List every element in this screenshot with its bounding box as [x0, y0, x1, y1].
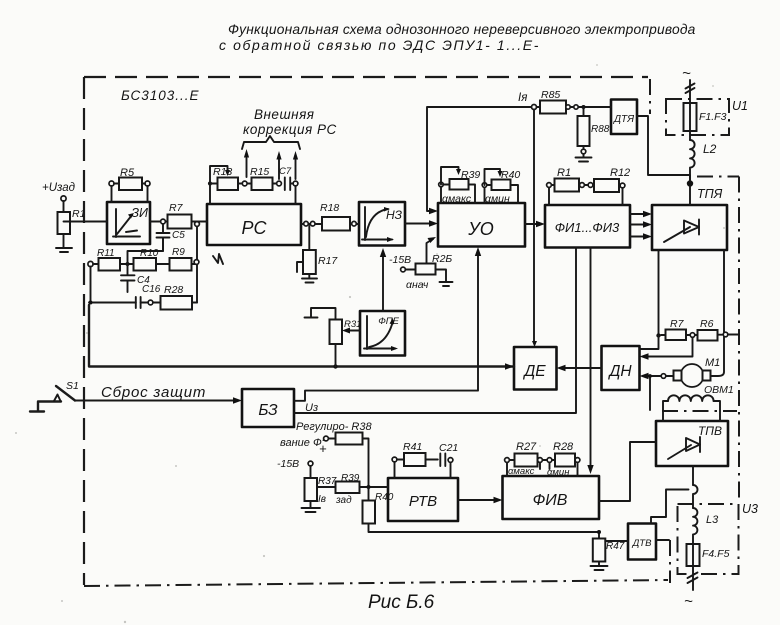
- svg-text:R12: R12: [610, 167, 630, 179]
- svg-text:+Uзад: +Uзад: [42, 182, 75, 194]
- svg-text:F4.F5: F4.F5: [702, 548, 730, 560]
- svg-text:НЗ: НЗ: [386, 208, 403, 222]
- svg-text:R27: R27: [516, 441, 537, 453]
- svg-text:R1: R1: [557, 167, 571, 179]
- svg-text:Рис Б.6: Рис Б.6: [368, 592, 435, 613]
- svg-text:L3: L3: [706, 514, 719, 526]
- svg-text:R7: R7: [169, 202, 184, 214]
- svg-text:R11: R11: [97, 248, 115, 259]
- svg-text:зад: зад: [335, 495, 352, 506]
- svg-text:C16: C16: [142, 284, 161, 295]
- svg-text:R18: R18: [320, 202, 339, 214]
- svg-text:R88: R88: [591, 124, 610, 135]
- svg-text:R2Б: R2Б: [432, 253, 452, 265]
- svg-text:R1: R1: [72, 208, 85, 220]
- svg-text:ТПВ: ТПВ: [698, 424, 722, 438]
- svg-text:αмакс: αмакс: [442, 193, 472, 205]
- svg-text:РТВ: РТВ: [409, 493, 437, 510]
- svg-text:ФПЕ: ФПЕ: [378, 316, 399, 327]
- svg-text:ДЕ: ДЕ: [522, 363, 546, 380]
- svg-text:ТПЯ: ТПЯ: [697, 187, 723, 201]
- svg-text:R6: R6: [700, 318, 714, 330]
- svg-text:αнач: αнач: [406, 279, 429, 291]
- svg-text:R7: R7: [670, 318, 685, 330]
- svg-text:R40: R40: [375, 492, 394, 503]
- svg-text:ДН: ДН: [607, 363, 632, 380]
- svg-text:C5: C5: [172, 230, 185, 241]
- svg-text:αмакс: αмакс: [508, 466, 535, 477]
- svg-text:R39: R39: [461, 169, 480, 181]
- svg-text:U1: U1: [732, 99, 748, 113]
- svg-text:Uз: Uз: [305, 402, 318, 414]
- svg-text:F1.F3: F1.F3: [699, 111, 727, 123]
- svg-text:R28: R28: [164, 284, 183, 296]
- svg-text:+: +: [319, 441, 327, 456]
- svg-text:Внешняя: Внешняя: [254, 107, 315, 122]
- svg-text:R15: R15: [250, 166, 269, 178]
- svg-text:L2: L2: [703, 142, 717, 156]
- svg-text:C7: C7: [279, 166, 292, 177]
- svg-text:коррекция РС: коррекция РС: [243, 122, 337, 137]
- svg-text:αмин: αмин: [485, 193, 510, 205]
- svg-text:ДТВ: ДТВ: [632, 538, 652, 549]
- svg-text:ДТЯ: ДТЯ: [613, 114, 634, 125]
- svg-text:БС3103...Е: БС3103...Е: [121, 88, 200, 103]
- svg-text:R17: R17: [318, 255, 338, 267]
- svg-text:~: ~: [684, 593, 693, 610]
- svg-text:Сброс защит: Сброс защит: [101, 384, 206, 401]
- svg-text:R31: R31: [344, 319, 361, 330]
- svg-text:αмин: αмин: [547, 467, 570, 478]
- svg-text:Функциональная схема однозонно: Функциональная схема однозонного неревер…: [228, 22, 696, 37]
- svg-text:R47: R47: [606, 541, 625, 552]
- svg-text:U3: U3: [742, 502, 758, 516]
- svg-text:R40: R40: [501, 169, 520, 181]
- svg-text:R9: R9: [172, 247, 185, 258]
- svg-text:R13: R13: [213, 166, 232, 178]
- svg-text:Iя: Iя: [518, 92, 527, 104]
- svg-text:R28: R28: [553, 441, 574, 453]
- svg-text:R10: R10: [140, 248, 159, 259]
- svg-text:УО: УО: [467, 219, 494, 239]
- svg-text:R37: R37: [318, 476, 337, 487]
- svg-text:ЗИ: ЗИ: [131, 206, 148, 220]
- svg-text:ОВМ1: ОВМ1: [704, 384, 734, 396]
- svg-text:R39: R39: [341, 473, 360, 484]
- svg-text:Регулиро- R38: Регулиро- R38: [296, 421, 372, 433]
- svg-text:R85: R85: [541, 89, 560, 101]
- svg-text:с обратной связью по ЭДС ЭПУ1: с обратной связью по ЭДС ЭПУ1- 1...Е-: [219, 37, 540, 53]
- svg-text:БЗ: БЗ: [258, 402, 278, 419]
- svg-text:ФИ1...ФИ3: ФИ1...ФИ3: [555, 220, 620, 235]
- svg-text:S1: S1: [66, 380, 79, 392]
- svg-text:-15В: -15В: [389, 254, 411, 266]
- svg-text:-15В: -15В: [277, 458, 299, 470]
- svg-text:R41: R41: [403, 441, 422, 453]
- svg-text:R5: R5: [120, 167, 135, 179]
- svg-text:М1: М1: [705, 357, 720, 369]
- svg-text:РС: РС: [241, 218, 267, 238]
- svg-text:ФИВ: ФИВ: [533, 492, 568, 509]
- svg-text:C21: C21: [439, 442, 458, 454]
- svg-text:Iв: Iв: [318, 494, 326, 505]
